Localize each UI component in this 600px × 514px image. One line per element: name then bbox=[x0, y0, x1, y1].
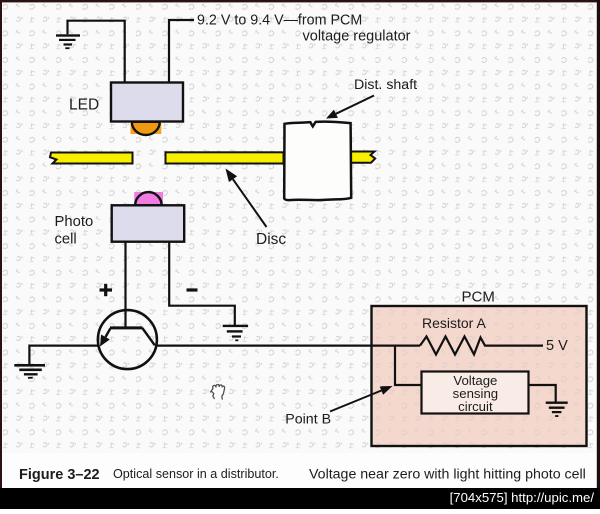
frame border left bbox=[0, 0, 2, 488]
svg-text:circuit: circuit bbox=[458, 399, 493, 414]
phototransistor Q1 bbox=[98, 310, 157, 369]
svg-text:5 V: 5 V bbox=[546, 338, 568, 354]
LED emitter lens (orange) bbox=[131, 122, 162, 135]
hand cursor mark bbox=[211, 385, 225, 400]
svg-text:cell: cell bbox=[55, 232, 77, 248]
wire photo cell right lead to ground bbox=[169, 242, 235, 325]
label 9.2 V to 9.4 V from PCM voltage regulator bbox=[197, 12, 411, 44]
arrow Disc pointer bbox=[226, 169, 267, 228]
ground below minus wire bbox=[223, 325, 248, 341]
ground inside PCM bbox=[546, 402, 568, 418]
svg-text:Disc: Disc bbox=[256, 231, 286, 248]
svg-text:Photo: Photo bbox=[55, 214, 94, 230]
caption strip bbox=[2, 453, 598, 488]
svg-text:9.2 V to 9.4 V—from PCM: 9.2 V to 9.4 V—from PCM bbox=[197, 12, 362, 28]
svg-text:Optical sensor in a distributo: Optical sensor in a distributor. bbox=[113, 467, 279, 481]
frame border top bbox=[0, 0, 600, 2]
svg-text:Dist. shaft: Dist. shaft bbox=[354, 77, 417, 93]
svg-text:Point B: Point B bbox=[285, 411, 331, 427]
frame border right bbox=[597, 0, 600, 488]
svg-text:voltage regulator: voltage regulator bbox=[303, 29, 411, 45]
LED body bbox=[111, 83, 183, 122]
voltage sensing circuit box bbox=[422, 372, 529, 414]
wire sensing circuit to ground bbox=[529, 385, 556, 402]
svg-text:[704x575] http://upic.me/: [704x575] http://upic.me/ bbox=[450, 490, 595, 505]
ground left of transistor bbox=[14, 364, 45, 379]
disc left segment (yellow) bbox=[50, 153, 133, 164]
distributor shaft body bbox=[284, 122, 351, 201]
wire photo cell left lead to transistor base bbox=[124, 242, 126, 328]
svg-text:PCM: PCM bbox=[462, 288, 495, 305]
photo cell body bbox=[112, 205, 185, 241]
wire junction to voltage sensing circuit bbox=[395, 346, 422, 385]
arrow Point B pointer bbox=[330, 386, 393, 412]
wire emitter to left ground bbox=[29, 346, 98, 364]
label Voltage sensing circuit bbox=[453, 373, 498, 414]
disc right segment (yellow) bbox=[166, 152, 284, 163]
label Photo cell bbox=[55, 214, 94, 248]
ground top-left bbox=[56, 34, 80, 49]
watermark bar bbox=[0, 488, 600, 509]
resistor A zigzag bbox=[420, 337, 543, 355]
svg-text:Voltage near zero with light h: Voltage near zero with light hitting pho… bbox=[309, 467, 586, 483]
arrow Dist. shaft pointer bbox=[326, 96, 374, 119]
svg-text:Resistor A: Resistor A bbox=[422, 315, 486, 331]
disc stub right of shaft (yellow) bbox=[351, 152, 375, 163]
PCM module box bbox=[372, 306, 587, 446]
svg-text:Figure 3–22: Figure 3–22 bbox=[19, 467, 100, 483]
svg-text:LED: LED bbox=[69, 97, 99, 114]
minus sign bbox=[187, 288, 198, 291]
photo cell dome (pink) bbox=[134, 192, 163, 205]
wire collector to PCM resistor bbox=[157, 345, 420, 347]
wire ground to LED anode bbox=[68, 21, 125, 83]
wire 9.2V supply to LED bbox=[169, 20, 194, 83]
plus sign bbox=[100, 284, 113, 296]
